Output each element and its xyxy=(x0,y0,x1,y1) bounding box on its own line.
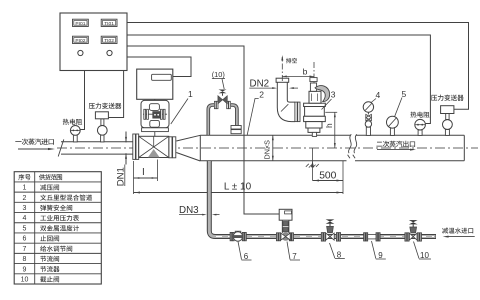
svg-text:3: 3 xyxy=(331,90,336,100)
svg-text:h: h xyxy=(324,123,334,128)
svg-text:5: 5 xyxy=(402,89,407,99)
svg-text:3: 3 xyxy=(23,205,27,212)
svg-text:10: 10 xyxy=(420,251,429,260)
svg-text:1: 1 xyxy=(188,89,193,99)
svg-text:4: 4 xyxy=(376,90,381,100)
svg-text:5: 5 xyxy=(23,225,27,232)
svg-text:9: 9 xyxy=(378,251,383,260)
svg-text:TI02: TI02 xyxy=(104,38,114,44)
svg-text:b: b xyxy=(303,66,308,76)
svg-text:2: 2 xyxy=(259,89,264,99)
svg-text:9: 9 xyxy=(23,266,27,273)
svg-text:DN×S: DN×S xyxy=(263,140,272,160)
svg-text:10: 10 xyxy=(21,277,29,284)
svg-text:PI01: PI01 xyxy=(75,21,85,27)
svg-text:TI01: TI01 xyxy=(104,21,114,27)
svg-text:7: 7 xyxy=(23,246,27,253)
svg-text:8: 8 xyxy=(23,256,27,263)
svg-text:DN2: DN2 xyxy=(250,78,270,89)
svg-text:(10): (10) xyxy=(212,70,225,79)
svg-text:6: 6 xyxy=(23,236,27,243)
svg-text:2: 2 xyxy=(23,195,27,202)
svg-text:6: 6 xyxy=(244,252,249,261)
svg-text:I: I xyxy=(142,167,145,178)
svg-text:1: 1 xyxy=(23,185,27,192)
svg-text:4: 4 xyxy=(23,215,27,222)
svg-text:8: 8 xyxy=(337,250,342,259)
svg-text:PI02: PI02 xyxy=(75,38,85,44)
svg-text:7: 7 xyxy=(292,252,297,261)
svg-text:L ± 10: L ± 10 xyxy=(224,182,252,193)
svg-text:500: 500 xyxy=(319,170,336,181)
